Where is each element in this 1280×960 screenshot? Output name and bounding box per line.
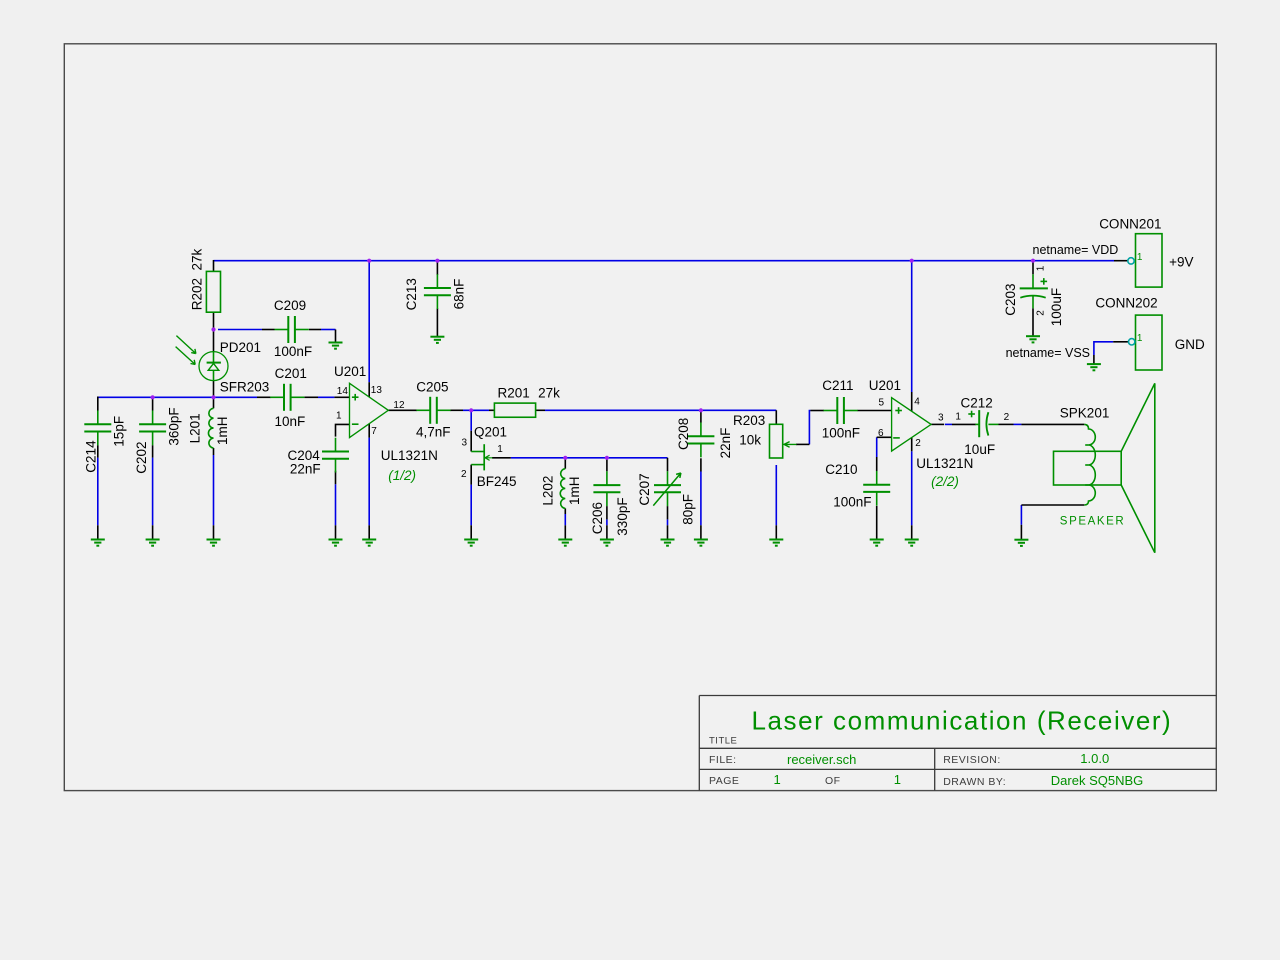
svg-text:5: 5 — [878, 398, 884, 409]
wire CONN202 net — [1094, 342, 1113, 355]
svg-text:+9V: +9V — [1169, 255, 1193, 270]
svg-text:330pF: 330pF — [615, 497, 630, 535]
wire L201 bottom drop — [213, 455, 215, 525]
junction VDD/pin4 — [910, 259, 914, 263]
wire C214 top pin — [97, 397, 99, 411]
svg-text:6: 6 — [878, 428, 884, 439]
wire U1 pin13 lead — [368, 382, 370, 397]
svg-text:L202: L202 — [541, 476, 556, 506]
svg-text:UL1321N: UL1321N — [916, 456, 973, 471]
svg-text:1mH: 1mH — [215, 416, 230, 445]
svg-text:1: 1 — [336, 411, 342, 422]
ground C207 — [661, 540, 675, 546]
svg-text:C211: C211 — [822, 378, 853, 393]
wire C210 bottom pin — [876, 506, 878, 539]
wire SPK201 ground pin — [1020, 525, 1022, 540]
wire VDD rail net — [214, 260, 1115, 262]
wire U1 pin7 lead — [368, 424, 370, 438]
wire ground pin C204 — [335, 525, 337, 539]
capacitor C206 — [593, 471, 620, 506]
resistor R202 — [206, 271, 220, 312]
wire L201 top pin — [213, 397, 215, 408]
svg-text:C209: C209 — [274, 298, 306, 313]
capacitor C211-plates — [824, 397, 858, 424]
wire ground pin C208 — [700, 525, 702, 539]
wire output junction to Q201 gate riser — [470, 410, 472, 431]
svg-text:10k: 10k — [739, 433, 761, 448]
wire ground pin L201 — [213, 525, 215, 539]
svg-text:CONN202: CONN202 — [1095, 296, 1157, 311]
svg-text:L201: L201 — [188, 413, 203, 443]
wire C208 top pin — [700, 410, 702, 422]
junction input/PD201/L201 — [211, 395, 215, 399]
capacitor C209-plates — [275, 316, 309, 343]
wire R201 to R203 top — [545, 409, 776, 411]
wire PD201 bottom pin — [213, 381, 215, 398]
wire C210 top pin — [876, 457, 878, 471]
capacitor C207 symbol (variable) — [653, 471, 681, 506]
wire U2 pin6 drop to C210 — [876, 437, 878, 457]
svg-text:CONN201: CONN201 — [1099, 217, 1161, 232]
wire Q201 drain lead — [470, 431, 472, 452]
wire R202 top pin — [213, 260, 215, 271]
wire C206 top pin — [606, 458, 608, 472]
wire VDD to U2 pin4 — [911, 261, 913, 392]
svg-text:22nF: 22nF — [290, 461, 321, 476]
wire input net to pin14 — [318, 396, 334, 398]
svg-text:3: 3 — [938, 413, 944, 424]
wire Q201 source drop — [470, 485, 472, 526]
svg-text:1: 1 — [1137, 252, 1143, 263]
svg-text:100nF: 100nF — [274, 344, 312, 359]
svg-text:2: 2 — [461, 469, 467, 480]
svg-text:2: 2 — [915, 438, 921, 449]
op-amp U201 (1/2) triangle — [350, 383, 389, 437]
capacitor C210 — [863, 471, 890, 506]
ground C204 — [329, 540, 343, 546]
wire U2 pin2 lead — [911, 438, 913, 452]
svg-text:4,7nF: 4,7nF — [416, 425, 451, 440]
wire R203 bottom drop — [775, 465, 777, 525]
inductor L202 — [560, 469, 565, 509]
svg-text:netname= VSS: netname= VSS — [1006, 346, 1090, 360]
svg-text:14: 14 — [337, 386, 349, 397]
wire L202 top pin — [564, 458, 566, 469]
wire C212 to SPK201 — [1014, 423, 1022, 425]
wire ground pin L202 — [564, 525, 566, 539]
capacitor C203 symbol (polarized) — [1020, 274, 1048, 308]
wire U2 pin3 to C212 — [945, 423, 952, 425]
wire SPK201 pin1 lead — [1021, 423, 1084, 425]
svg-text:FILE:: FILE: — [709, 754, 737, 766]
wire ground pin R203 — [775, 525, 777, 539]
svg-text:C208: C208 — [676, 418, 691, 450]
wire U2 pin4 lead — [911, 392, 913, 411]
wire L202 bottom pin — [564, 508, 566, 514]
ground C210 — [870, 540, 884, 546]
wire C206 bottom drop — [606, 519, 608, 525]
wire U1 pin7 drop — [368, 438, 370, 526]
ground L201 — [207, 540, 221, 546]
ground C213 net — [430, 337, 444, 343]
svg-text:1: 1 — [955, 412, 961, 423]
junction tank/C206 — [605, 456, 609, 460]
wire ground pin C206 — [606, 525, 608, 539]
svg-text:TITLE: TITLE — [709, 736, 737, 747]
wire input net — [98, 396, 257, 398]
capacitor C204 — [322, 438, 349, 473]
svg-text:C203: C203 — [1003, 284, 1018, 316]
capacitor C212 symbol (polarized) — [968, 410, 998, 437]
wire ground pin C202 — [152, 525, 154, 539]
svg-text:UL1321N: UL1321N — [381, 448, 438, 463]
potentiometer R203 — [770, 424, 797, 458]
wire C203 top pin — [1032, 261, 1034, 275]
ground C202 — [146, 540, 160, 546]
wire PD201 top pin — [213, 330, 215, 352]
wire ground pin C214 — [97, 525, 99, 539]
svg-text:netname= VDD: netname= VDD — [1033, 243, 1119, 257]
ground L202 — [558, 540, 572, 546]
wire R202/C209/PD201 node — [218, 329, 262, 331]
wire ground pin Q201 source — [470, 525, 472, 539]
svg-text:GND: GND — [1175, 337, 1205, 352]
svg-text:R203: R203 — [733, 413, 765, 428]
svg-text:BF245: BF245 — [477, 474, 517, 489]
capacitor C208 — [687, 423, 714, 458]
ground U201 pin2 — [905, 540, 919, 546]
wire C208 bottom drop — [700, 472, 702, 526]
svg-text:SPEAKER: SPEAKER — [1060, 516, 1126, 528]
wire C207 bottom drop — [667, 519, 669, 525]
photodiode PD201 symbol — [199, 352, 228, 381]
wire U2 pin3 lead — [931, 423, 944, 425]
svg-text:U201: U201 — [869, 378, 901, 393]
connector CONN202 symbol — [1129, 315, 1163, 370]
wire C212 left pin — [952, 423, 976, 425]
ground C206 — [600, 540, 614, 546]
ground C208 — [694, 540, 708, 546]
svg-text:3: 3 — [461, 438, 467, 449]
svg-text:2: 2 — [1036, 310, 1047, 316]
wire C205 right pin — [450, 409, 463, 411]
capacitor C205-plates — [416, 397, 450, 424]
svg-text:13: 13 — [371, 385, 383, 396]
svg-text:(1/2): (1/2) — [388, 468, 416, 483]
wire R201 left pin — [489, 409, 494, 411]
svg-text:REVISION:: REVISION: — [943, 754, 1001, 766]
wire C207 bottom pin — [667, 506, 669, 519]
wire C209 left pin — [262, 329, 275, 331]
junction VDD/C213 — [435, 259, 439, 263]
capacitor C202 — [139, 411, 166, 446]
capacitor C207 — [654, 471, 681, 506]
wire R203 wiper riser — [809, 411, 810, 445]
wire C204 bottom pin — [335, 471, 337, 485]
svg-text:100nF: 100nF — [822, 426, 860, 441]
junction input/C202 — [151, 395, 155, 399]
svg-text:R202 27k: R202 27k — [190, 249, 205, 311]
wire R203 top pin — [775, 410, 777, 424]
wire L201 bottom pin — [213, 448, 215, 455]
svg-text:4: 4 — [914, 397, 920, 408]
photodiode light arrows — [176, 336, 196, 365]
svg-text:C210: C210 — [825, 462, 857, 477]
svg-text:100nF: 100nF — [833, 495, 871, 510]
wire R202 bottom pin — [213, 312, 215, 330]
capacitor C213 — [424, 274, 451, 309]
speaker SPK201 symbol — [1054, 383, 1155, 552]
svg-text:1: 1 — [894, 772, 901, 787]
svg-text:1: 1 — [497, 444, 503, 455]
junction output/Q201 — [469, 408, 473, 412]
title block frame — [699, 696, 1216, 791]
svg-text:1: 1 — [774, 772, 781, 787]
svg-text:C207: C207 — [637, 473, 652, 505]
svg-text:10nF: 10nF — [275, 414, 306, 429]
wire CONN202 ground drop — [1093, 355, 1095, 364]
resistor R201 — [494, 403, 535, 417]
wire U1 output net — [463, 409, 489, 411]
ground C214 — [91, 540, 105, 546]
wire CONN202 pin1 lead — [1113, 341, 1128, 343]
sheet border frame — [64, 44, 1216, 791]
wire R203 wiper lead — [796, 443, 809, 445]
svg-text:Q201: Q201 — [474, 425, 507, 440]
svg-text:68nF: 68nF — [452, 279, 467, 310]
wire C209 ground drop — [335, 330, 337, 343]
wire C211 left pin — [810, 410, 824, 412]
svg-text:12: 12 — [393, 400, 405, 411]
svg-text:Darek SQ5NBG: Darek SQ5NBG — [1051, 773, 1143, 788]
svg-text:1.0.0: 1.0.0 — [1080, 751, 1109, 766]
svg-text:C212: C212 — [961, 396, 993, 411]
wire Q201 source lead — [470, 465, 472, 485]
svg-text:SFR203: SFR203 — [220, 379, 270, 394]
svg-text:10uF: 10uF — [964, 442, 995, 457]
svg-text:OF: OF — [825, 775, 841, 787]
svg-text:(2/2): (2/2) — [931, 474, 959, 489]
ground SPK201 — [1014, 540, 1028, 546]
svg-text:PAGE: PAGE — [709, 775, 739, 787]
wire C204 bottom drop — [335, 484, 337, 525]
svg-text:U201: U201 — [334, 364, 366, 379]
svg-text:C202: C202 — [134, 442, 149, 474]
wire U2 pin6 lead — [877, 436, 892, 438]
wire Q201 gate lead — [492, 457, 511, 459]
ground R203 — [769, 540, 783, 546]
wire SPK201 bottom drop — [1020, 505, 1022, 525]
svg-text:DRAWN BY:: DRAWN BY: — [943, 776, 1006, 788]
junction R202/C209/PD201 — [211, 327, 215, 331]
wire C206 bottom pin — [606, 506, 608, 519]
ground U201 pin7 — [362, 540, 376, 546]
capacitor C214 — [84, 411, 111, 446]
wire SPK201 pin2 lead — [1021, 504, 1084, 506]
wire L202 bottom drop — [564, 514, 566, 525]
svg-text:27k: 27k — [538, 386, 560, 401]
svg-text:C214: C214 — [84, 440, 99, 473]
svg-text:Laser communication (Receiver): Laser communication (Receiver) — [752, 706, 1173, 736]
wire C203 ground pin — [1032, 308, 1034, 336]
svg-text:7: 7 — [371, 426, 377, 437]
wire U2 pin2 drop — [911, 451, 913, 525]
wire tank net (gate row) — [511, 457, 668, 459]
wire VDD to U1 pin13 — [368, 261, 370, 383]
op-amp U201 (2/2) triangle — [892, 398, 932, 451]
wire C214 bottom drop — [97, 458, 99, 526]
svg-text:SPK201: SPK201 — [1060, 406, 1110, 421]
capacitor C201-plates — [270, 384, 304, 411]
wire C209 right pin — [309, 329, 321, 331]
svg-text:80pF: 80pF — [680, 494, 695, 525]
svg-text:receiver.sch: receiver.sch — [787, 752, 856, 767]
wire C213 top pin — [436, 261, 438, 275]
wire ground pin C207 — [667, 525, 669, 539]
svg-text:R201: R201 — [498, 386, 530, 401]
connector CONN201 symbol — [1128, 234, 1162, 287]
ground CONN202 net — [1087, 364, 1101, 370]
wire ground pin U201 pin7 — [368, 525, 370, 539]
wire C212 right pin — [999, 423, 1014, 425]
wire C207 top pin — [667, 458, 669, 472]
ground C203 net — [1026, 336, 1040, 342]
wire C201 left pin — [257, 396, 271, 398]
wire C202 bottom pin — [152, 445, 154, 457]
ground Q201 source — [464, 540, 478, 546]
wire U1 pin12 lead — [388, 409, 417, 411]
svg-text:360pF: 360pF — [166, 407, 181, 445]
svg-text:C213: C213 — [404, 278, 419, 310]
svg-text:1: 1 — [1137, 333, 1143, 344]
svg-text:100uF: 100uF — [1049, 288, 1064, 326]
svg-text:C206: C206 — [590, 502, 605, 534]
wire U1 pin14 lead — [334, 396, 349, 398]
junction output/C208 — [699, 408, 703, 412]
svg-text:2: 2 — [1004, 412, 1010, 423]
svg-text:1mH: 1mH — [567, 476, 582, 505]
junction VDD/C203 — [1031, 259, 1035, 263]
wire C202 top pin — [152, 397, 154, 410]
wire C202 bottom drop — [152, 458, 154, 526]
wire C211 right pin / U2 pin5 lead — [857, 410, 891, 412]
wire ground pin U201 pin2 — [911, 525, 913, 539]
ground C209 net — [329, 343, 343, 349]
wire C201 right pin — [305, 396, 319, 398]
wire CONN201 pin1 lead — [1114, 260, 1128, 262]
junction tank/L202 — [563, 456, 567, 460]
svg-text:15pF: 15pF — [112, 416, 127, 447]
svg-text:PD201: PD201 — [220, 340, 261, 355]
transistor Q201 symbol — [471, 444, 492, 470]
wire C208 bottom pin — [700, 458, 702, 471]
svg-text:1: 1 — [1036, 265, 1047, 271]
svg-text:C201: C201 — [275, 366, 307, 381]
junction VDD/pin13 — [367, 259, 371, 263]
svg-text:C205: C205 — [416, 379, 448, 394]
wire C213 ground pin — [436, 308, 438, 336]
wire C214 bottom pin — [97, 445, 99, 457]
wire U1 pin1 lead — [336, 424, 350, 436]
wire C209 to ground — [321, 329, 336, 331]
svg-text:22nF: 22nF — [718, 428, 733, 459]
wire R201 right pin — [536, 409, 545, 411]
inductor L201 — [208, 408, 213, 448]
